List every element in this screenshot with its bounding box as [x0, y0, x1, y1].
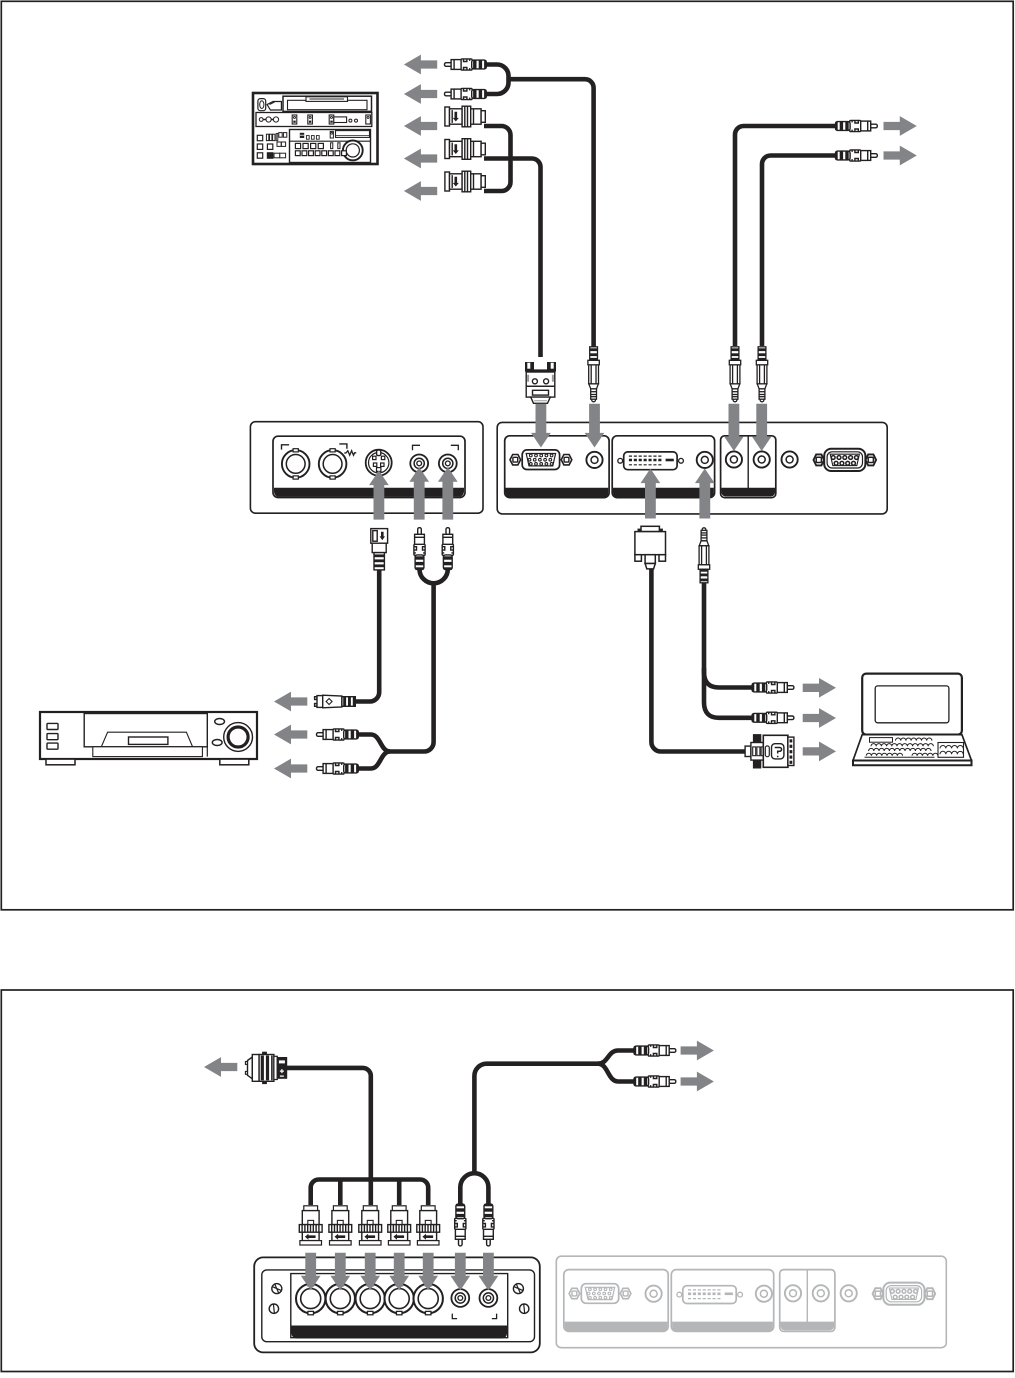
VGA female connector (INPUT A) [569, 1288, 580, 1298]
arrow into BNC 3 [360, 1253, 380, 1291]
arrow into audio out jack 2 [752, 404, 772, 451]
arrow to computer: monitor DVI [803, 742, 836, 762]
arrow into RCA input L [409, 467, 429, 519]
audio input jack A [646, 1286, 662, 1302]
BNC plug G [329, 1206, 352, 1245]
arrow into VGA input [531, 404, 551, 448]
arrow to VCR: video 1 [404, 116, 437, 136]
wire: audio output cables to RCA (top right) [735, 126, 840, 346]
frame: bottom connection-example box [1, 990, 1013, 1372]
audio output jack (monitor) [782, 451, 798, 467]
arrow into BNC 2 [330, 1253, 350, 1291]
computer (laptop, bottom-right device) [853, 674, 972, 766]
RCA plug audio out R (top right) [835, 150, 877, 161]
RCA audio input jack L [451, 1289, 469, 1307]
BNC video input 1 [282, 449, 310, 479]
arrow into S-video input [369, 471, 389, 520]
arrow to VCR: video [274, 725, 307, 745]
audio output jack L [785, 1285, 801, 1301]
arrow into audio in L [450, 1253, 470, 1291]
arrow to computer: audio R [803, 708, 836, 728]
RCA plug audio R (to computer) [752, 712, 794, 723]
BNC plug VD [417, 1206, 440, 1245]
BNC plug video 3 (to VCR) [445, 171, 485, 192]
video input panel (left: BNC / S-video / RCA) [250, 422, 483, 514]
arrow to VCR: video 2 [404, 149, 437, 169]
arrow to audio equipment L [884, 116, 917, 136]
arrow to audio: L [681, 1041, 714, 1061]
BNC video input 2 (sync) [319, 449, 347, 479]
BNC plug video 1 (to VCR) [445, 106, 485, 127]
DVI female connector (INPUT B) [618, 458, 623, 463]
frame: top connection-example box [1, 1, 1013, 910]
RCA plug audio L (to computer) [752, 682, 794, 693]
arrow to VCR: audio R [404, 84, 437, 104]
arrow to audio equipment R [884, 146, 917, 166]
wire: VGA to 5xBNC cable [285, 1068, 371, 1205]
audio output jack R [754, 451, 770, 467]
RCA plug audio R (to VCR) [445, 88, 487, 99]
BNC input 3 (R/G/B/HD/VD) [356, 1282, 385, 1314]
wire: DVI cable below panel to laptop [651, 563, 747, 752]
RCA plug audio out L (top right) [835, 120, 877, 131]
HD15 VGA plug (to monitor) [245, 1052, 286, 1084]
wire: BNC video cable group [484, 126, 511, 191]
DVI plug (to computer) [745, 734, 794, 768]
BNC plug R [299, 1206, 322, 1245]
HD15 VGA plug into INPUT A [526, 363, 556, 404]
arrow to audio: R [681, 1072, 714, 1092]
arrow into RCA input R [438, 467, 458, 519]
audio output jack (monitor) [841, 1285, 857, 1301]
RCA audio input jack R [480, 1289, 498, 1307]
RCA audio input jack [439, 455, 457, 473]
ghost interface panel (grayed) [556, 1256, 946, 1348]
arrow to VCR: audio L [404, 55, 437, 75]
5-BNC input panel [254, 1257, 540, 1352]
BNC input 5 (R/G/B/HD/VD) [414, 1282, 443, 1314]
audio input jack A [586, 452, 602, 468]
BNC input 1 (R/G/B/HD/VD) [296, 1282, 325, 1314]
arrow into BNC 1 [301, 1253, 321, 1291]
RS-232C D-sub 9 connector [873, 1288, 884, 1299]
arrow to monitor: VGA [204, 1057, 237, 1077]
stereo mini plug audio out right channel cable [756, 347, 767, 402]
BNC plug B [359, 1206, 382, 1245]
wire: audio L/R RCA pair to stereo mini plug (left top) [484, 65, 509, 95]
DVI female connector (INPUT B) [677, 1292, 682, 1297]
RCA plug audio out R [634, 1076, 676, 1087]
S-video input connector [366, 450, 392, 476]
RCA plug audio (to VCR) [317, 763, 359, 774]
BNC input 4 (R/G/B/HD/VD) [385, 1282, 414, 1314]
arrow into BNC 4 [389, 1253, 409, 1291]
audio input jack B [697, 452, 713, 468]
RCA plug audio R into panel [483, 1204, 494, 1246]
wire: stereo mini to RCA x2 cable below panel to laptop [704, 578, 757, 688]
RCA plug audio out L [634, 1045, 676, 1056]
wire: S-video cable below panel [356, 566, 379, 702]
audio output jack L [726, 451, 742, 467]
RCA plug R into panel [442, 528, 453, 570]
VCR (bottom-left device) [40, 712, 257, 765]
arrow to VCR: S-video [274, 692, 307, 712]
BNC plug HD [388, 1206, 411, 1245]
arrow into BNC 5 [418, 1253, 438, 1291]
RCA plug video (to VCR) [317, 729, 359, 740]
RS-232C D-sub 9 connector [814, 454, 825, 465]
stereo mini plug into INPUT A audio [588, 347, 599, 402]
stereo mini plug audio out left channel cable [729, 347, 740, 402]
arrow into audio out jack 1 [724, 404, 744, 451]
arrow into audio in R [479, 1253, 499, 1291]
wire: audio RCA x2 cable (bottom box) [460, 1173, 488, 1204]
RCA plug audio L into panel [455, 1204, 466, 1246]
RCA plug audio L (to VCR) [445, 59, 487, 70]
RCA plug L into panel [414, 528, 425, 570]
audio input jack B [756, 1286, 772, 1302]
S-video plug (to VCR) [315, 695, 356, 708]
arrow to VCR: video 3 [404, 181, 437, 201]
wire: audio RCA x2 cable below panel to VCR [420, 565, 448, 583]
arrow into audio input B [695, 469, 715, 519]
stereo mini plug into INPUT B audio [698, 528, 709, 583]
S-video plug into panel [371, 529, 388, 570]
interface panel (right: VGA, DVI, audio, RS-232C) [497, 422, 887, 514]
audio output jack R [813, 1285, 829, 1301]
VGA female connector (INPUT A) [510, 455, 521, 465]
BNC plug video 2 (to VCR) [445, 139, 485, 160]
arrow to computer: audio L [803, 678, 836, 698]
arrow into audio input A [585, 404, 605, 448]
professional video deck (top-left device) [253, 93, 378, 164]
RCA video input jack [410, 455, 428, 473]
DVI plug into INPUT B [635, 526, 666, 569]
arrow to VCR: audio [274, 759, 307, 779]
BNC input 2 (R/G/B/HD/VD) [326, 1282, 355, 1314]
arrow into DVI input [641, 469, 661, 519]
